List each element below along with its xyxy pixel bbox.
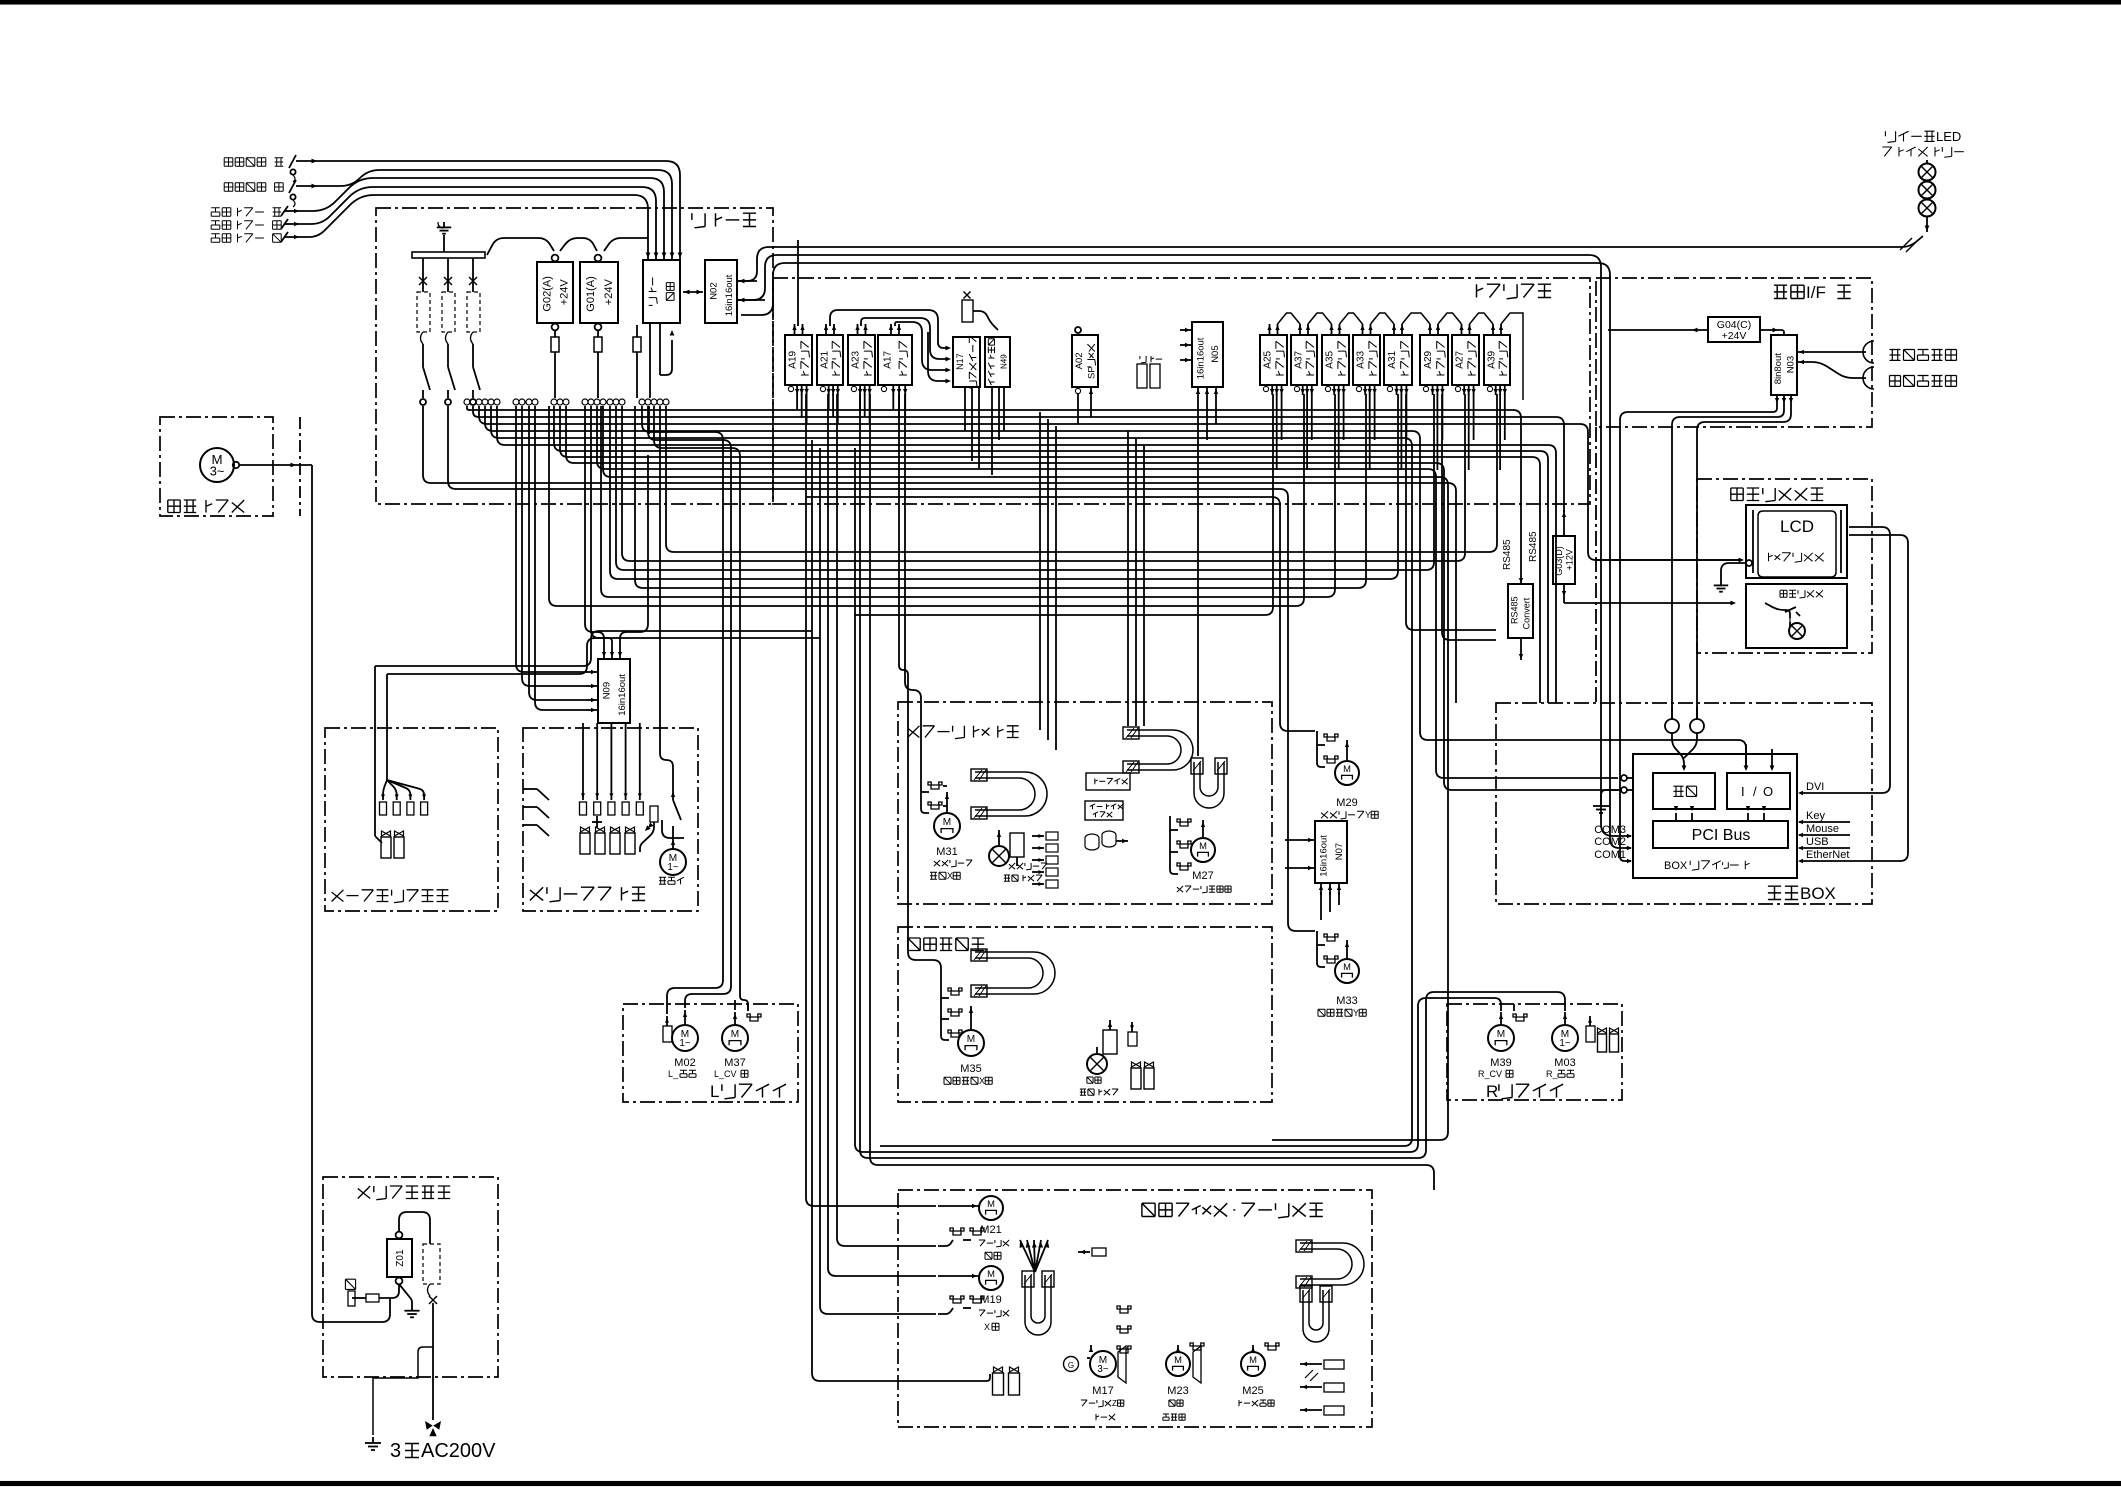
wire A25 pin stubs bbox=[1276, 394, 1278, 470]
wire g2b bbox=[812, 440, 990, 1381]
wire N09 feed 1 bbox=[516, 406, 586, 672]
driver A39 bbox=[1484, 335, 1510, 385]
wire M19 plugs bbox=[938, 1308, 953, 1314]
label ドライバ部 bbox=[1477, 284, 1552, 299]
pci bus bbox=[1653, 821, 1788, 848]
cleaning T bbox=[596, 816, 598, 822]
connector plug M37 bbox=[747, 1014, 761, 1021]
cleaning pot bbox=[650, 806, 658, 822]
svg-text:N17: N17 bbox=[955, 353, 965, 370]
io unit N03 8in8out bbox=[1771, 335, 1797, 395]
svg-text:A17: A17 bbox=[882, 350, 893, 368]
svg-text:M: M bbox=[987, 1268, 995, 1279]
wire M33 feed bbox=[448, 406, 1315, 931]
wire N07 left stubs bbox=[1285, 839, 1303, 841]
cable carrier squeegee 3 bbox=[1194, 762, 1224, 808]
noise filter bbox=[962, 300, 973, 322]
wire g3b bbox=[860, 394, 1565, 1158]
recog valves bbox=[1132, 1062, 1141, 1067]
driver A27 bbox=[1452, 335, 1479, 385]
cable carrier recog bbox=[975, 952, 1055, 994]
wire g2c bbox=[820, 448, 936, 1314]
connector plug M21-1 bbox=[950, 1228, 964, 1235]
switch cover rear bbox=[281, 219, 288, 229]
wire drv to ctrlbox 2 bbox=[1442, 394, 1496, 640]
wire N09 feed 4 bbox=[535, 406, 586, 710]
svg-text:G01(A): G01(A) bbox=[585, 276, 597, 311]
wire driver chain 1 bbox=[797, 240, 799, 326]
connector bank squeegee bbox=[1046, 832, 1058, 840]
svg-text:L_CV: L_CV bbox=[714, 1069, 737, 1079]
surge absorber Z01 bbox=[387, 1239, 412, 1277]
svg-text:M39: M39 bbox=[1490, 1057, 1511, 1069]
wire N07 bottom bbox=[1320, 892, 1322, 920]
wire g3a bbox=[855, 448, 1501, 1152]
svg-text:/: / bbox=[1753, 784, 1757, 799]
section box vacuum pump (真空ポンプ) bbox=[160, 417, 273, 516]
motor M27 bbox=[1202, 820, 1204, 838]
sensor rect M02 bbox=[663, 1026, 672, 1042]
wire A17 stubs bbox=[892, 394, 894, 410]
svg-text:1~: 1~ bbox=[1559, 1038, 1570, 1049]
svg-text:Z: Z bbox=[1112, 1399, 1117, 1408]
wire terminal stubs 2 bbox=[648, 406, 650, 434]
wire A21 stubs bbox=[828, 394, 830, 410]
wire emergency bundle 4 bbox=[300, 187, 656, 244]
svg-text:A37: A37 bbox=[1293, 350, 1304, 368]
svg-text:A35: A35 bbox=[1325, 350, 1336, 368]
connector plug M31-2 bbox=[928, 802, 942, 809]
wire main ground bbox=[373, 1347, 433, 1435]
label スキージヘッド部 bbox=[908, 726, 1019, 739]
svg-text:M29: M29 bbox=[1336, 797, 1357, 809]
wire row4b bbox=[491, 406, 1412, 1146]
motor M vacuum 3~ bbox=[200, 448, 234, 482]
ground relay bus bbox=[438, 222, 444, 228]
wire emergency bundle 3 bbox=[300, 178, 664, 244]
svg-text:Convert: Convert bbox=[1522, 597, 1532, 629]
label 雷 bbox=[345, 1279, 355, 1289]
breaker Q1 bbox=[422, 258, 424, 292]
wire band A39 bbox=[666, 394, 1497, 552]
wire rs485 line bbox=[1520, 504, 1522, 584]
svg-text:A33: A33 bbox=[1356, 350, 1367, 368]
svg-text:M: M bbox=[1249, 1354, 1257, 1365]
wire plugs M31 bbox=[921, 779, 929, 813]
connector plug M27-3 bbox=[1177, 863, 1191, 870]
wire g2d bbox=[828, 394, 936, 1276]
wire N03 right pins bbox=[1797, 351, 1866, 353]
rs485 converter bbox=[1508, 584, 1533, 638]
svg-text:Z01: Z01 bbox=[395, 1249, 406, 1267]
wire A31 pin stubs bbox=[1400, 394, 1402, 470]
wire row7 bbox=[566, 406, 1618, 790]
wire bus C bbox=[741, 263, 1629, 848]
motor M19 bbox=[979, 1266, 1003, 1290]
cylinders bbox=[1085, 834, 1099, 850]
wire z01 top bbox=[399, 1212, 430, 1240]
wire band A25 bbox=[855, 394, 1273, 615]
svg-text:A19: A19 bbox=[788, 350, 799, 368]
power supply G04(C) +24V bbox=[1708, 317, 1760, 342]
connector plug M19-2 bbox=[970, 1296, 984, 1303]
motor M37 bbox=[734, 1012, 736, 1024]
section box front/rear I/F (前後I/F部) bbox=[1596, 278, 1872, 427]
label 基板チャック・テーブル部 bbox=[1142, 1203, 1323, 1218]
connector bank M17 bbox=[1117, 1306, 1131, 1313]
switch cover front bbox=[281, 206, 288, 216]
driver A33 bbox=[1353, 335, 1380, 385]
svg-text:M17: M17 bbox=[1092, 1385, 1113, 1397]
svg-text:N03: N03 bbox=[1786, 356, 1797, 373]
svg-text:A31: A31 bbox=[1387, 350, 1398, 368]
lamp camera board bbox=[1096, 1047, 1098, 1054]
relay board top pins bbox=[647, 244, 649, 260]
wire squeegee inner a bbox=[1039, 702, 1041, 730]
svg-text:Mouse: Mouse bbox=[1806, 823, 1839, 835]
wire N49 stubs bbox=[991, 387, 993, 475]
utility valves bbox=[375, 836, 382, 843]
svg-text:N49: N49 bbox=[999, 354, 1008, 369]
svg-text:M: M bbox=[1497, 1029, 1505, 1040]
wire G04 arrows bbox=[1690, 329, 1708, 331]
wire N17 stubs bbox=[964, 387, 966, 431]
connector plug M31-1 bbox=[928, 782, 942, 789]
wire M31 feed bbox=[905, 394, 921, 779]
border bottom bar bbox=[0, 1481, 2121, 1486]
bus bar bbox=[412, 252, 485, 258]
connector plug M27-1 bbox=[1177, 819, 1191, 826]
label 非常停止 前 bbox=[224, 158, 283, 167]
wire row5b bbox=[554, 406, 1548, 703]
wire A17 pin drop 2 bbox=[899, 394, 941, 985]
label 非常停止 後 bbox=[224, 183, 283, 192]
motor M33 bbox=[1346, 940, 1348, 958]
box computer BOXコンピュータ bbox=[1633, 754, 1797, 878]
section box R conveyor (Rコンベア) bbox=[1447, 1004, 1622, 1100]
wire row8 bbox=[603, 406, 1448, 1140]
svg-text:M: M bbox=[943, 817, 951, 828]
motor M cleaning 1~ 巻上げ bbox=[672, 790, 674, 800]
svg-text:N05: N05 bbox=[1210, 345, 1221, 362]
connector plug M33-2 bbox=[1324, 956, 1338, 963]
recog cam rect bbox=[1103, 1030, 1117, 1054]
svg-text:O: O bbox=[1763, 784, 1773, 799]
driver A19 bbox=[785, 335, 812, 385]
svg-text:PCI Bus: PCI Bus bbox=[1692, 827, 1751, 844]
svg-text:M: M bbox=[1199, 840, 1207, 851]
svg-text:M: M bbox=[1174, 1354, 1182, 1365]
wire row9 bbox=[423, 406, 1456, 703]
wire emergency bundle 2 bbox=[318, 170, 672, 244]
connector 前工程信号 bbox=[1863, 341, 1874, 363]
svg-text:M: M bbox=[987, 1198, 995, 1209]
power supply G02(A) +24V bbox=[537, 262, 573, 323]
svg-text:G: G bbox=[1068, 1361, 1074, 1370]
border top bar bbox=[0, 0, 2121, 5]
wire plugs M33 bbox=[1317, 931, 1325, 967]
wire utility feed 1 bbox=[375, 631, 812, 666]
wire relay-N02 link bbox=[683, 291, 703, 293]
breaker Q3 bbox=[472, 258, 474, 292]
svg-text:RS485: RS485 bbox=[1528, 531, 1539, 562]
wire N17 inputs bbox=[946, 346, 952, 351]
driver A21 bbox=[817, 335, 843, 385]
ct circle 1 bbox=[1665, 719, 1679, 733]
svg-text:A23: A23 bbox=[851, 350, 862, 368]
load cell amp bbox=[1085, 801, 1123, 820]
label 安全カバー 後 bbox=[211, 221, 281, 230]
label シグナルタワー bbox=[1882, 147, 1964, 157]
svg-text:G02(A): G02(A) bbox=[541, 276, 553, 311]
svg-text:16in16out: 16in16out bbox=[724, 274, 735, 316]
svg-text:L: L bbox=[710, 1082, 719, 1101]
section box board chuck table (基板チャック・テーブル部) bbox=[898, 1190, 1372, 1427]
wire N02 right pins bbox=[737, 280, 757, 282]
driver A17 bbox=[878, 335, 912, 385]
svg-text:A21: A21 bbox=[819, 350, 830, 368]
boundary dashdot bbox=[299, 417, 301, 516]
ac input arrows bbox=[425, 1421, 433, 1430]
wire N09 feed 2 bbox=[522, 406, 586, 686]
svg-text:1~: 1~ bbox=[667, 862, 678, 873]
wire squeegee feed b bbox=[1127, 431, 1129, 702]
svg-text:16in16out: 16in16out bbox=[1195, 337, 1206, 379]
wire ct to recog bbox=[1672, 733, 1684, 769]
motor M23 bbox=[1166, 1352, 1190, 1376]
wire pci-recog bbox=[1675, 813, 1677, 821]
utility feed wires bbox=[374, 666, 376, 836]
wire row6 bbox=[597, 406, 1618, 778]
svg-text:M03: M03 bbox=[1554, 1057, 1575, 1069]
wire band A37 bbox=[549, 394, 1304, 606]
label ユーティリティ部 bbox=[332, 890, 449, 903]
svg-text:RS485: RS485 bbox=[1502, 539, 1513, 570]
power supply G01(A) +24V bbox=[580, 262, 618, 323]
wire A33 pin stubs bbox=[1369, 394, 1371, 470]
svg-text:A29: A29 bbox=[1423, 350, 1434, 368]
svg-text:LED: LED bbox=[1936, 129, 1961, 144]
svg-text:Key: Key bbox=[1806, 810, 1825, 822]
arrow fan chuck bbox=[1020, 1240, 1035, 1272]
driver A35 bbox=[1322, 335, 1349, 385]
svg-text:EtherNet: EtherNet bbox=[1806, 849, 1849, 861]
label ブザー付LED bbox=[1885, 129, 1961, 144]
svg-text:M: M bbox=[1343, 961, 1351, 972]
motor M17 servo bbox=[1064, 1357, 1079, 1372]
label 真空ポンプ bbox=[168, 500, 244, 513]
cable carrier squeegee 1 bbox=[975, 772, 1047, 816]
screen cam rect bbox=[1010, 833, 1024, 857]
wire ct up bbox=[1671, 707, 1673, 719]
label 安全カバー 前 bbox=[211, 208, 281, 217]
wire emergency bundle 5 bbox=[300, 195, 648, 244]
relay board リレー基板 bbox=[643, 260, 680, 323]
svg-text:M27: M27 bbox=[1192, 870, 1213, 882]
svg-text:M: M bbox=[1343, 763, 1351, 774]
svg-text:LCD: LCD bbox=[1780, 517, 1814, 536]
svg-text:16in16out: 16in16out bbox=[1319, 835, 1330, 877]
driver A25 bbox=[1260, 335, 1287, 385]
label 安全カバー 他 bbox=[211, 234, 281, 243]
io unit N09 16in16out bbox=[598, 659, 630, 723]
wire M29 feed bbox=[806, 497, 1315, 731]
wire row1 bbox=[467, 406, 1521, 504]
small rect recog bbox=[1128, 1032, 1137, 1046]
wire drv to ctrlbox 1 bbox=[1406, 394, 1496, 630]
wire relay board bottom bbox=[649, 323, 651, 398]
wire signal tower feed bbox=[1900, 238, 1912, 250]
power supply G03(D) +12V bbox=[1553, 536, 1575, 584]
wire row5c bbox=[560, 406, 1540, 703]
terminal row bbox=[464, 399, 470, 405]
label リレー部 bbox=[692, 213, 756, 228]
wire A19 stubs bbox=[796, 394, 798, 410]
wire N05 stubs bbox=[1197, 396, 1199, 756]
svg-text:M35: M35 bbox=[960, 1063, 981, 1075]
wire g3c bbox=[870, 394, 1434, 1190]
label メイン電源部 bbox=[358, 1186, 450, 1200]
wire pump out bbox=[239, 464, 312, 466]
section box utility (ユーティリティ部) bbox=[325, 728, 498, 911]
svg-text:Y: Y bbox=[1365, 810, 1371, 820]
wire lcd dvi bbox=[1802, 527, 1890, 793]
wire A39 pin stubs bbox=[1499, 394, 1501, 470]
chuck connector rows bbox=[1300, 1363, 1322, 1365]
wire lcd feed bbox=[1596, 559, 1742, 561]
svg-text:16in16out: 16in16out bbox=[617, 674, 628, 716]
analog out N49 bbox=[985, 337, 1010, 387]
svg-text:A39: A39 bbox=[1486, 350, 1497, 368]
io unit N05 16in16out bbox=[1192, 322, 1223, 387]
wire row4 bbox=[485, 406, 1746, 768]
wire bus A signal tower bbox=[737, 236, 1923, 281]
svg-text:M31: M31 bbox=[936, 846, 957, 858]
rconv valves bbox=[1598, 1028, 1607, 1033]
wire band A33 bbox=[635, 394, 1366, 588]
wire band A35 bbox=[601, 394, 1335, 597]
connector plug M23 bbox=[1190, 1343, 1204, 1350]
wire plugs M27 bbox=[1170, 816, 1178, 874]
svg-text:M25: M25 bbox=[1242, 1385, 1263, 1397]
ct circle 2 bbox=[1690, 719, 1704, 733]
sp pack A02 bbox=[1072, 335, 1098, 387]
wire io top arrows bbox=[1745, 744, 1747, 769]
chuck valves bbox=[994, 1367, 1003, 1372]
controller N17 bbox=[953, 337, 980, 387]
io unit N07 16in16out bbox=[1315, 821, 1347, 883]
wire band A31 bbox=[610, 394, 1398, 579]
svg-text:M37: M37 bbox=[724, 1057, 745, 1069]
lamp camera screen bbox=[998, 830, 1000, 845]
wire g1c bbox=[654, 406, 748, 1010]
connector bank recog bbox=[948, 988, 962, 995]
wire A27 pin stubs bbox=[1468, 394, 1470, 470]
svg-text:+24V: +24V bbox=[603, 279, 615, 306]
section box board recognition (基板認識部) bbox=[898, 927, 1272, 1102]
svg-text:3~: 3~ bbox=[210, 464, 225, 479]
section box driver (ドライバ部) bbox=[773, 278, 1590, 504]
terminal box bbox=[1086, 773, 1130, 790]
wire row2 bbox=[473, 406, 1564, 512]
wire winch feed bbox=[660, 406, 673, 790]
wire A37 pin stubs bbox=[1306, 394, 1308, 470]
motor M25 bbox=[1241, 1352, 1265, 1376]
cleaning valves bbox=[581, 827, 590, 832]
svg-text:M: M bbox=[967, 1034, 975, 1045]
svg-text:DVI: DVI bbox=[1806, 781, 1824, 793]
motor M03 bbox=[1564, 1012, 1566, 1024]
svg-text:3: 3 bbox=[390, 1440, 401, 1462]
wire N03 to ct2 bbox=[1697, 404, 1791, 719]
driver A23 bbox=[848, 335, 875, 385]
io unit N02 16in16out bbox=[705, 260, 737, 323]
wire g1d stub M37 bbox=[734, 1000, 736, 1010]
wire A35 pin stubs bbox=[1338, 394, 1340, 470]
svg-text:M02: M02 bbox=[674, 1057, 695, 1069]
motor M31 bbox=[946, 792, 948, 813]
wire N03 to ct1 bbox=[1672, 404, 1784, 719]
svg-text:N09: N09 bbox=[602, 682, 613, 699]
wire plugs M35 bbox=[941, 985, 949, 1040]
svg-text:A25: A25 bbox=[1263, 350, 1274, 368]
connector plug M21-2 bbox=[970, 1228, 984, 1235]
svg-text:A27: A27 bbox=[1455, 350, 1466, 368]
connector plug M29-2 bbox=[1324, 756, 1338, 763]
wire G04 left feed bbox=[1608, 329, 1690, 331]
section box control box (制御BOX) bbox=[1496, 703, 1872, 904]
signal tower lamps bbox=[1926, 160, 1928, 164]
section box L conveyor (Lコンベア) bbox=[623, 1004, 798, 1102]
wire row5a bbox=[497, 406, 1556, 703]
utility outlets bbox=[383, 780, 387, 800]
wire band A29 bbox=[616, 394, 1434, 570]
svg-text:A02: A02 bbox=[1074, 352, 1085, 369]
wire M19 feed bbox=[938, 1275, 979, 1277]
label 基板認識部 bbox=[908, 938, 984, 951]
svg-text:+24V: +24V bbox=[1722, 330, 1747, 342]
svg-text:BOX: BOX bbox=[1800, 884, 1836, 903]
wire row3 bbox=[479, 406, 1742, 560]
svg-text:+24V: +24V bbox=[559, 279, 571, 306]
svg-text:R_: R_ bbox=[1546, 1069, 1558, 1079]
switch emergency rear bbox=[289, 180, 296, 193]
wire N09 top feeds bbox=[585, 406, 604, 645]
section box squeegee head (スキージヘッド部) bbox=[898, 702, 1272, 904]
lcd touch panel bbox=[1746, 505, 1847, 578]
svg-text:X: X bbox=[984, 1322, 990, 1332]
svg-text:R_CV: R_CV bbox=[1478, 1069, 1502, 1079]
wire g2a bbox=[806, 394, 936, 1206]
wire lcd usb bbox=[1802, 535, 1908, 861]
wire M21 feed bbox=[938, 1205, 979, 1207]
svg-text:N02: N02 bbox=[709, 282, 720, 299]
svg-text:X: X bbox=[979, 1076, 985, 1086]
wire N09 feed 3 bbox=[529, 406, 586, 700]
svg-text:I/F: I/F bbox=[1806, 283, 1826, 302]
svg-text:AC200V: AC200V bbox=[421, 1440, 496, 1462]
wire driver chain 2 bbox=[1278, 313, 1301, 324]
recognition board 認識 bbox=[1653, 773, 1715, 809]
wire control box left edge ext bbox=[1595, 427, 1597, 703]
svg-text:SP: SP bbox=[1087, 366, 1098, 379]
wire G04-N03 link bbox=[1779, 330, 1784, 335]
wire squeegee feed a bbox=[1039, 412, 1041, 702]
svg-text:I: I bbox=[1741, 784, 1745, 799]
connector plug M19-1 bbox=[950, 1296, 964, 1303]
svg-text:8in8out: 8in8out bbox=[1773, 353, 1784, 385]
wire g2e bbox=[837, 394, 936, 1246]
